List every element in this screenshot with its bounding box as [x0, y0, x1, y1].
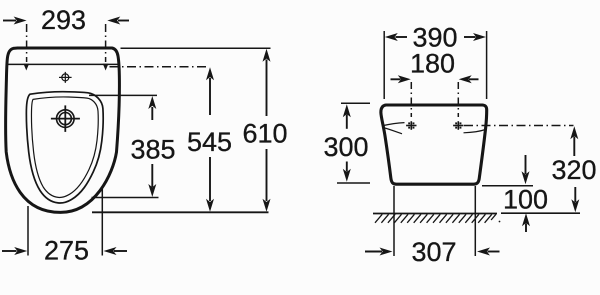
- dimension 390 right extension line: [486, 31, 488, 99]
- dimension 293 right extension dash-dot line: [105, 24, 107, 62]
- dimension 307 right arrow: [477, 248, 500, 256]
- dimension 385 lower arrow: [148, 164, 156, 197]
- top view drain hole crosshair: [51, 105, 80, 131]
- top view inner bowl inner rim: [31, 97, 98, 198]
- dimension 100 lower arrow: [522, 213, 530, 232]
- dimension 300 bottom extension line: [337, 182, 370, 184]
- bidet top view outer body outline: [6, 48, 120, 212]
- floor hatching: [375, 214, 496, 223]
- dimension 100 upper arrow: [522, 155, 530, 184]
- dimension 180 left extension dash-dot line: [410, 82, 412, 117]
- reference line bowl top for 385: [89, 94, 157, 96]
- dimension 320 upper arrow: [570, 126, 578, 156]
- dimension 390 left extension line: [383, 31, 385, 99]
- dimension 307 left arrow: [365, 248, 393, 256]
- dimension 300 top extension line: [341, 102, 370, 104]
- reference line top edge for 610: [121, 47, 271, 49]
- dimension 610 lower arrow: [263, 149, 271, 212]
- dimension 275 right arrow: [104, 247, 128, 255]
- dimension 180 left arrow: [391, 75, 411, 83]
- svg-text:180: 180: [410, 49, 455, 79]
- dimension 275 left arrow: [2, 247, 27, 255]
- svg-text:320: 320: [551, 155, 596, 185]
- dimension 300 upper arrow: [343, 104, 351, 129]
- dimension 385 upper arrow: [148, 96, 156, 120]
- side view basin rim left lower curve: [383, 128, 402, 134]
- dimension 180 right arrow: [459, 75, 479, 83]
- dimension 390 right arrow: [464, 33, 486, 41]
- reference dash-dot hole line for 545: [110, 66, 208, 68]
- dimension 275 right extension line: [101, 186, 103, 256]
- reference line body bottom for 545 and 610: [92, 211, 269, 213]
- side view hole centre dash-dot line horizontal: [464, 125, 574, 127]
- bidet side view body outline: [381, 105, 487, 184]
- dimension 307 right extension line: [474, 186, 476, 256]
- reference line bowl bottom for 385: [92, 197, 159, 199]
- dimension 275 left extension line: [27, 206, 29, 256]
- fixing hole left marker arrow: [24, 64, 30, 71]
- dimension 320 lower arrow: [571, 187, 579, 212]
- dimension 293 left arrow: [3, 17, 27, 25]
- svg-text:293: 293: [41, 5, 86, 35]
- top view cover seam line: [8, 63, 119, 65]
- svg-text:385: 385: [130, 135, 175, 165]
- top view tap hole crosshair: [59, 72, 72, 83]
- svg-text:100: 100: [503, 184, 548, 214]
- floor hatch end dot: [499, 221, 501, 223]
- dimension 300 lower arrow: [343, 162, 351, 182]
- fixing hole right marker arrow: [103, 64, 109, 71]
- svg-text:307: 307: [411, 237, 456, 267]
- dimension 180 right extension dash-dot line: [457, 82, 459, 117]
- top view inner bowl outer rim: [26, 92, 103, 203]
- dimension 610 upper arrow: [263, 49, 271, 116]
- dimension 307 left extension line: [393, 186, 395, 256]
- dimension 293 right arrow: [107, 17, 129, 25]
- dimension 545 lower arrow: [206, 157, 214, 212]
- right floor extension line: [501, 212, 580, 214]
- svg-text:545: 545: [187, 127, 232, 157]
- dimension 545 upper arrow: [206, 67, 214, 115]
- dimension 293 left extension dash-dot line: [26, 24, 28, 62]
- dimension 390 left arrow: [385, 33, 407, 41]
- side view basin rim right lower curve: [464, 130, 486, 133]
- side view basin rim left upper line: [384, 123, 405, 126]
- svg-text:300: 300: [323, 132, 368, 162]
- svg-text:610: 610: [242, 119, 287, 149]
- right body bottom extension line: [482, 185, 533, 187]
- side view left fixing hole cross: [406, 121, 416, 130]
- svg-text:275: 275: [44, 236, 89, 266]
- side view right fixing hole cross: [453, 121, 463, 130]
- floor line: [373, 213, 497, 215]
